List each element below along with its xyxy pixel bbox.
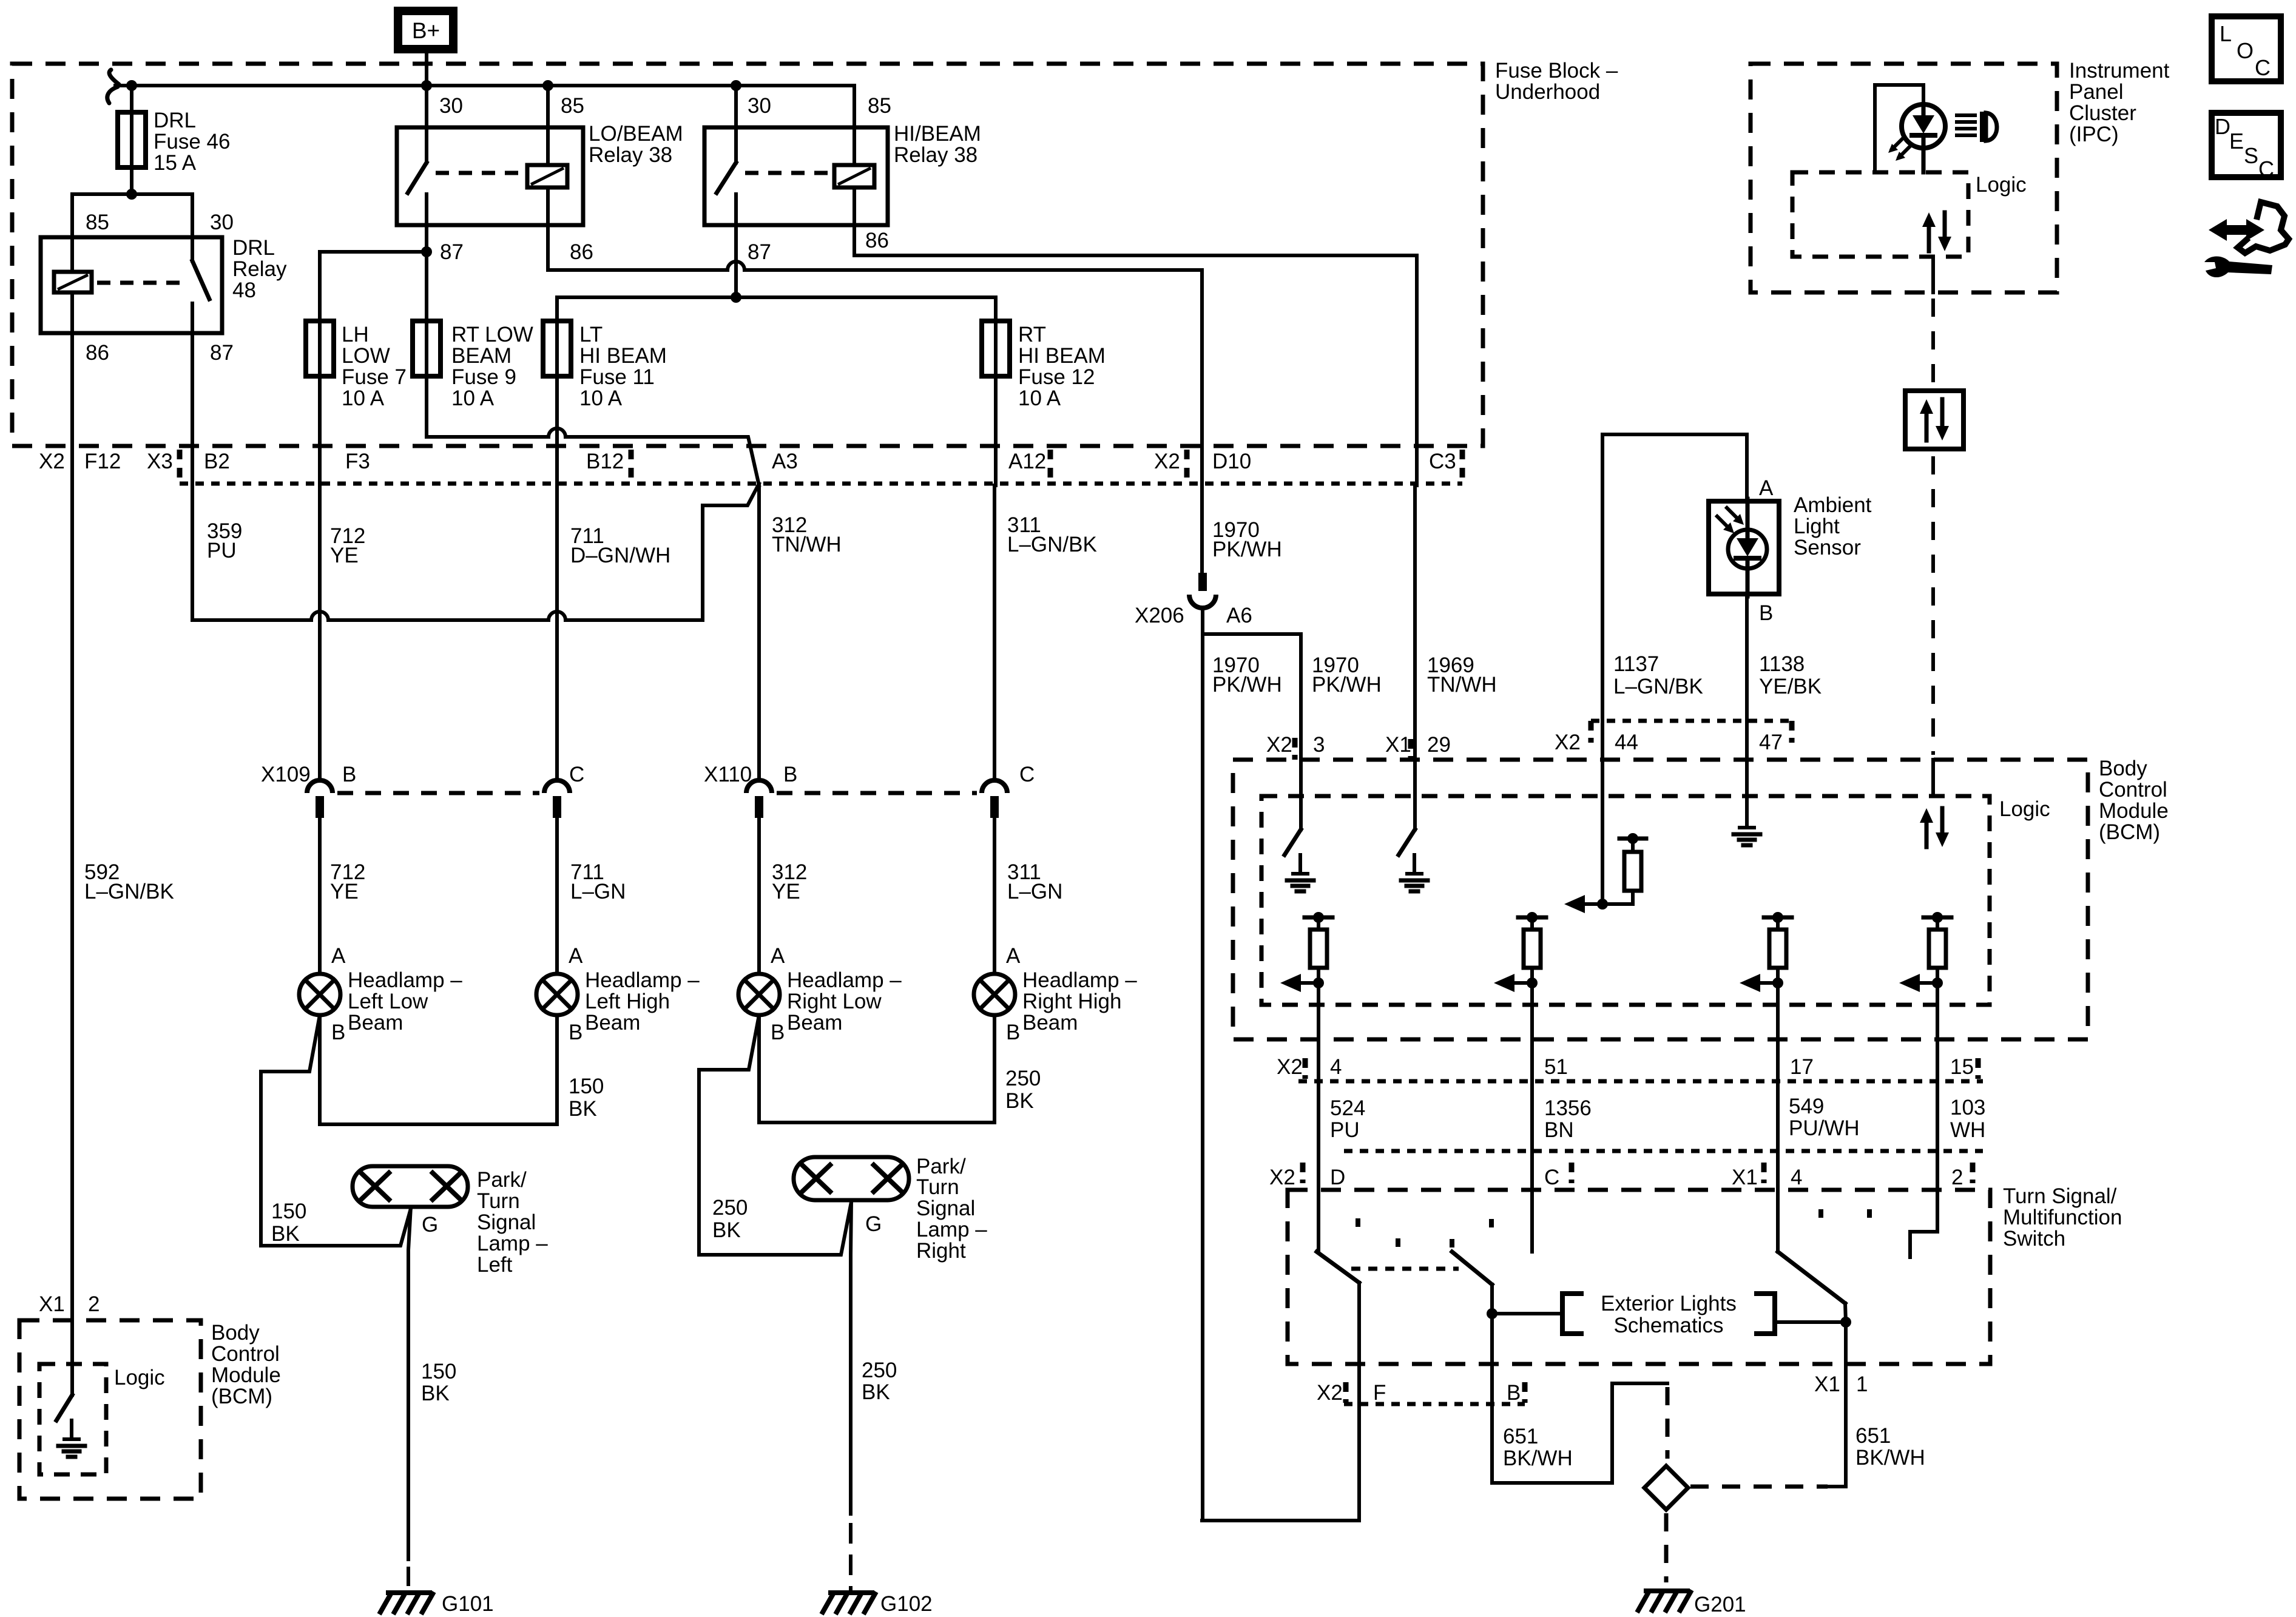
wire 1969 TN/WH <box>1413 485 1417 760</box>
svg-text:C: C <box>2258 157 2274 181</box>
node fuse46-relay <box>126 189 137 200</box>
svg-text:L–GN/BK: L–GN/BK <box>84 880 174 903</box>
svg-text:BK: BK <box>421 1382 450 1405</box>
wire 651 left run <box>1492 1383 1667 1483</box>
serial link upper <box>1931 257 1935 292</box>
svg-text:15 A: 15 A <box>154 151 197 175</box>
wire 592 L-GN/BK <box>70 485 74 1303</box>
svg-text:1356: 1356 <box>1544 1096 1592 1120</box>
wire 592 into BCM <box>70 1303 74 1395</box>
tick B12 <box>629 450 634 480</box>
wire fuse11 stub <box>555 297 559 485</box>
connector X109 arc C <box>544 780 570 793</box>
svg-text:BK: BK <box>862 1380 890 1404</box>
svg-text:4: 4 <box>1330 1055 1342 1079</box>
wire left lamps ground join <box>320 1015 557 1124</box>
svg-text:Right High: Right High <box>1022 990 1121 1013</box>
svg-text:Lamp –: Lamp – <box>916 1218 987 1241</box>
svg-text:Logic: Logic <box>1976 173 2027 197</box>
wrench icon <box>2204 257 2272 278</box>
svg-text:RT LOW: RT LOW <box>451 323 533 346</box>
lamp headlamp left high beam <box>536 974 578 1015</box>
svg-text:C: C <box>1544 1166 1559 1189</box>
serial into logic <box>1931 760 1935 796</box>
svg-text:10 A: 10 A <box>1018 387 1061 410</box>
wire F to 1970 join <box>1202 1519 1359 1522</box>
switch BCM lower-left <box>56 1395 72 1420</box>
svg-text:10 A: 10 A <box>451 387 495 410</box>
TS switch1 out F <box>1357 1283 1361 1521</box>
serial box arrows <box>1925 409 1929 441</box>
ambient light sensor box <box>1709 501 1779 594</box>
node bus-HI30 <box>731 80 741 91</box>
svg-text:Right Low: Right Low <box>787 990 882 1013</box>
svg-text:X2: X2 <box>39 450 65 473</box>
svg-text:651: 651 <box>1503 1425 1538 1448</box>
svg-text:D: D <box>1330 1166 1345 1189</box>
svg-text:103: 103 <box>1950 1096 1985 1119</box>
svg-text:X2: X2 <box>1266 733 1292 757</box>
svg-text:Panel: Panel <box>2069 80 2124 104</box>
svg-text:G102: G102 <box>880 1592 933 1616</box>
BCM serial arrows <box>1925 818 1929 847</box>
resistor pin51 pullup <box>1518 916 1546 920</box>
svg-text:C: C <box>1019 763 1035 786</box>
svg-text:B12: B12 <box>586 450 624 473</box>
svg-text:Headlamp –: Headlamp – <box>348 968 462 992</box>
connector X109 arc B <box>307 780 333 793</box>
svg-text:X2: X2 <box>1277 1055 1303 1079</box>
fuse F12 RT HI BEAM 10A <box>982 321 1010 376</box>
svg-text:PU: PU <box>1330 1118 1360 1142</box>
svg-text:Signal: Signal <box>916 1197 975 1220</box>
svg-text:3: 3 <box>1313 733 1325 757</box>
svg-text:B: B <box>1006 1021 1020 1044</box>
svg-text:G: G <box>865 1212 882 1236</box>
svg-text:TN/WH: TN/WH <box>772 533 842 556</box>
DRL relay coil <box>54 272 92 292</box>
IPC indicator lamp <box>1902 104 1945 148</box>
TS switch2 blade <box>1452 1252 1492 1284</box>
svg-text:17: 17 <box>1790 1055 1814 1079</box>
svg-text:LO/BEAM: LO/BEAM <box>589 122 683 146</box>
TS switch3 out 1 <box>1845 1303 1846 1322</box>
wire 1137 in BCM <box>1601 760 1604 904</box>
svg-text:Logic: Logic <box>1999 797 2050 821</box>
svg-text:524: 524 <box>1330 1096 1365 1120</box>
svg-text:WH: WH <box>1950 1118 1985 1142</box>
wire from bracket right <box>1775 1320 1846 1324</box>
HI relay coil stubs <box>853 86 856 165</box>
svg-text:D10: D10 <box>1212 450 1251 473</box>
svg-text:PK/WH: PK/WH <box>1312 673 1382 697</box>
svg-text:87: 87 <box>440 240 464 264</box>
svg-text:10 A: 10 A <box>579 387 623 410</box>
svg-text:Beam: Beam <box>348 1011 403 1035</box>
svg-text:A6: A6 <box>1226 604 1252 627</box>
svg-text:Right: Right <box>916 1239 966 1263</box>
svg-text:2: 2 <box>88 1292 100 1316</box>
bracket exterior right <box>1757 1294 1775 1334</box>
lamp park/turn right <box>794 1157 909 1200</box>
resistor 1137 pullup <box>1619 837 1646 841</box>
svg-text:PK/WH: PK/WH <box>1212 673 1282 697</box>
wire hibeam fuse bar <box>557 295 996 299</box>
LO relay dashes <box>436 171 523 175</box>
svg-text:Fuse 7: Fuse 7 <box>342 365 407 389</box>
svg-text:B+: B+ <box>412 18 440 43</box>
svg-text:BN: BN <box>1544 1118 1574 1142</box>
svg-text:Exterior Lights: Exterior Lights <box>1601 1292 1737 1315</box>
svg-text:85: 85 <box>86 211 109 234</box>
svg-text:15: 15 <box>1950 1055 1974 1079</box>
TS switch2 out B <box>1490 1284 1494 1483</box>
svg-text:DRL: DRL <box>232 236 275 260</box>
dashed diamond up <box>1666 1387 1670 1459</box>
svg-text:PK/WH: PK/WH <box>1212 538 1282 561</box>
turn signal switch dashed box <box>1288 1190 1990 1364</box>
wire HI87 down <box>734 225 738 297</box>
svg-text:A3: A3 <box>772 450 798 473</box>
svg-text:DRL: DRL <box>154 109 196 132</box>
svg-text:Fuse Block –: Fuse Block – <box>1495 59 1618 83</box>
svg-text:YE/BK: YE/BK <box>1759 675 1822 698</box>
svg-text:L–GN: L–GN <box>570 880 626 903</box>
svg-text:F: F <box>1373 1381 1386 1405</box>
svg-text:C: C <box>2255 55 2271 80</box>
svg-text:HI BEAM: HI BEAM <box>1018 344 1106 368</box>
IPC logic arrows <box>1927 222 1931 251</box>
svg-text:150: 150 <box>421 1360 456 1383</box>
wire dash to G102 <box>849 1523 853 1590</box>
svg-text:(BCM): (BCM) <box>2099 820 2160 844</box>
svg-text:150: 150 <box>271 1200 306 1223</box>
tick A12-X2 <box>1048 450 1053 480</box>
svg-text:L: L <box>2220 21 2232 46</box>
svg-text:Cluster: Cluster <box>2069 101 2136 125</box>
ticks TS input <box>1300 1163 1306 1183</box>
DRL relay dashes <box>97 281 182 285</box>
lamp headlamp left low beam <box>299 974 340 1015</box>
wire 311 L-GN lower <box>993 818 996 974</box>
tick C3 <box>1460 450 1465 480</box>
svg-text:X2: X2 <box>1555 731 1581 754</box>
headlamp icon <box>1957 113 1975 117</box>
TS switch3 wire 4 <box>1776 1151 1780 1252</box>
LOC box <box>2212 16 2281 81</box>
lamp headlamp right high beam <box>974 974 1015 1015</box>
BCM bottom connector dotted <box>1298 1079 1983 1084</box>
svg-text:Fuse 46: Fuse 46 <box>154 130 230 154</box>
svg-text:L–GN/BK: L–GN/BK <box>1007 533 1097 556</box>
svg-text:87: 87 <box>210 341 234 365</box>
node TS exterior left <box>1487 1308 1497 1319</box>
svg-text:BK/WH: BK/WH <box>1855 1446 1925 1470</box>
svg-text:C: C <box>569 763 584 786</box>
svg-text:HI BEAM: HI BEAM <box>579 344 667 368</box>
connector X206 cup <box>1189 595 1216 608</box>
svg-text:Turn: Turn <box>916 1175 959 1199</box>
svg-text:BK/WH: BK/WH <box>1503 1447 1573 1470</box>
svg-text:Left: Left <box>477 1253 513 1277</box>
svg-text:X3: X3 <box>147 450 173 473</box>
svg-text:Control: Control <box>211 1342 280 1366</box>
svg-text:F12: F12 <box>84 450 121 473</box>
svg-text:X2: X2 <box>1269 1166 1295 1189</box>
tick X3-B2 <box>177 450 183 480</box>
BCM lower-left dashed box <box>19 1320 201 1499</box>
svg-text:Fuse 9: Fuse 9 <box>451 365 516 389</box>
node bus-LO85 <box>542 80 553 91</box>
svg-text:1138: 1138 <box>1759 652 1805 676</box>
svg-text:X206: X206 <box>1135 604 1184 627</box>
sensor connector dotted <box>1591 719 1792 723</box>
svg-text:Beam: Beam <box>787 1011 842 1035</box>
svg-text:F3: F3 <box>345 450 370 473</box>
connector strip dotted <box>180 482 1462 486</box>
dashed to diamond right <box>1690 1485 1828 1489</box>
ground G101 <box>388 1590 430 1595</box>
fuse F11 LT HI BEAM 10A <box>543 321 571 376</box>
svg-text:Left Low: Left Low <box>348 990 428 1013</box>
wire DRL relay top bar <box>72 194 192 237</box>
wire 711 L-GN lower <box>555 818 559 974</box>
svg-text:B: B <box>331 1021 345 1044</box>
wire DRL87 to B2 <box>191 333 194 485</box>
wire pin51 out <box>1530 983 1534 1151</box>
wire LO87 to fuse7 <box>320 250 427 254</box>
wire fuse12 stub <box>994 297 998 485</box>
svg-text:G101: G101 <box>442 1592 494 1616</box>
svg-text:Park/: Park/ <box>477 1168 527 1192</box>
wire HI86 run <box>854 225 1417 485</box>
svg-text:Headlamp –: Headlamp – <box>585 968 700 992</box>
svg-text:B: B <box>342 763 356 786</box>
wire pin4 out <box>1317 983 1320 1151</box>
svg-text:X1: X1 <box>1732 1166 1758 1189</box>
wire to bracket left <box>1492 1312 1562 1315</box>
svg-text:30: 30 <box>210 211 234 234</box>
HI relay coil <box>834 165 874 187</box>
svg-text:250: 250 <box>1005 1067 1041 1090</box>
svg-text:BK: BK <box>1005 1089 1034 1113</box>
wire dash to G101 <box>407 1567 410 1586</box>
tick X2-D10 <box>1184 450 1190 480</box>
svg-text:250: 250 <box>862 1359 897 1382</box>
wire 250BK to right park <box>699 1015 851 1255</box>
node LO87 <box>421 246 432 257</box>
svg-text:51: 51 <box>1544 1055 1568 1079</box>
svg-text:B2: B2 <box>204 450 230 473</box>
wire 359 jog to A3 <box>192 618 311 622</box>
relay K38H HI/BEAM box <box>704 127 888 225</box>
svg-text:1137: 1137 <box>1613 652 1659 676</box>
relay K48 DRL box <box>41 237 222 333</box>
svg-text:Beam: Beam <box>1022 1011 1078 1035</box>
X110 dashed link <box>777 791 977 795</box>
svg-text:Lamp –: Lamp – <box>477 1232 548 1255</box>
splice diamond <box>1644 1466 1688 1510</box>
connector X110 arc B <box>746 780 772 793</box>
svg-text:651: 651 <box>1855 1424 1891 1448</box>
wire pin17 out <box>1776 983 1780 1151</box>
svg-text:O: O <box>2237 38 2254 63</box>
wire 150BK to left park <box>261 1015 411 1246</box>
arrow 1137 sense <box>1582 902 1602 906</box>
svg-text:X1: X1 <box>1385 733 1411 757</box>
HI relay dashes <box>745 171 830 175</box>
svg-text:85: 85 <box>561 94 584 118</box>
BCM dashed box <box>1233 760 2088 1039</box>
TS linkage dots <box>1356 1218 1360 1233</box>
svg-text:G: G <box>422 1213 438 1237</box>
logic box lower-left <box>39 1364 106 1474</box>
svg-text:A: A <box>569 944 583 968</box>
svg-text:C3: C3 <box>1429 450 1456 473</box>
svg-text:PU/WH: PU/WH <box>1789 1116 1860 1140</box>
svg-text:X2: X2 <box>1317 1381 1343 1405</box>
svg-text:Fuse 11: Fuse 11 <box>579 365 655 389</box>
svg-text:TN/WH: TN/WH <box>1427 673 1497 697</box>
svg-text:YE: YE <box>330 544 359 567</box>
svg-text:YE: YE <box>330 880 359 903</box>
svg-text:Underhood: Underhood <box>1495 80 1600 104</box>
svg-text:A: A <box>1006 944 1021 968</box>
svg-text:B: B <box>1759 601 1773 625</box>
svg-text:85: 85 <box>868 94 891 118</box>
svg-text:Ambient: Ambient <box>1794 493 1872 517</box>
svg-text:Fuse 12: Fuse 12 <box>1018 365 1095 389</box>
svg-text:A: A <box>331 944 346 968</box>
svg-text:(BCM): (BCM) <box>211 1385 272 1408</box>
svg-text:2: 2 <box>1951 1166 1963 1189</box>
TS bottom connector dotted <box>1344 1402 1525 1406</box>
svg-text:Relay 38: Relay 38 <box>589 143 672 167</box>
svg-text:BEAM: BEAM <box>451 344 512 368</box>
HI relay switch <box>734 86 738 163</box>
svg-text:LH: LH <box>342 323 369 346</box>
wire 1138 YE/BK <box>1745 596 1749 760</box>
svg-text:Module: Module <box>2099 799 2169 823</box>
wire 359 PU <box>191 485 194 620</box>
IPC logic box <box>1792 172 1968 257</box>
svg-text:Turn Signal/: Turn Signal/ <box>2003 1184 2117 1208</box>
IPC dashed box <box>1751 64 2057 292</box>
svg-text:Control: Control <box>2099 778 2167 802</box>
svg-text:Multifunction: Multifunction <box>2003 1206 2122 1229</box>
svg-text:44: 44 <box>1615 731 1638 754</box>
resistor pin15 pullup <box>1923 916 1951 920</box>
svg-text:1: 1 <box>1856 1372 1868 1396</box>
ground G102 <box>831 1590 872 1595</box>
fuse F46 DRL 15A <box>118 112 146 167</box>
svg-text:549: 549 <box>1789 1095 1824 1118</box>
svg-text:RT: RT <box>1018 323 1046 346</box>
svg-text:B: B <box>1507 1381 1521 1405</box>
svg-text:X1: X1 <box>1814 1372 1840 1396</box>
svg-text:E: E <box>2229 129 2244 154</box>
svg-text:10 A: 10 A <box>342 387 385 410</box>
wire LO86 run <box>548 225 728 270</box>
BCM logic dashed box <box>1261 796 1990 1005</box>
serial data box <box>1905 391 1963 449</box>
ground pin29 <box>1413 855 1416 874</box>
DRL relay switch <box>191 237 194 261</box>
wire X206 down split <box>1201 608 1204 1521</box>
tick X1-29 <box>1408 739 1414 758</box>
ground 1138 <box>1745 760 1749 809</box>
fuse block - underhood dashed box <box>12 64 1483 446</box>
lamp park/turn left <box>353 1166 468 1207</box>
wire 1970 to X206 <box>1200 485 1204 574</box>
ground pin3 <box>1298 855 1302 874</box>
svg-text:Beam: Beam <box>585 1011 640 1035</box>
svg-text:G201: G201 <box>1694 1593 1746 1616</box>
svg-text:D: D <box>2215 114 2230 139</box>
svg-text:29: 29 <box>1427 733 1451 757</box>
svg-text:Body: Body <box>211 1321 260 1345</box>
svg-text:Sensor: Sensor <box>1794 536 1861 559</box>
svg-text:87: 87 <box>748 240 771 264</box>
switch pin3 <box>1299 760 1303 829</box>
sensor photodiode <box>1728 530 1767 569</box>
svg-text:B: B <box>783 763 797 786</box>
wire 651 right run <box>1829 1485 1846 1488</box>
X109 dashed link <box>337 791 539 795</box>
TS input connector dotted <box>1344 1149 1983 1153</box>
svg-text:30: 30 <box>439 94 463 118</box>
fuse F9 RT LOW 10A <box>413 321 441 376</box>
TS switch4 wire 2 <box>1910 1151 1937 1257</box>
wire 311 L-GN/BK upper <box>993 485 996 780</box>
wire 1137 loop <box>1602 434 1747 760</box>
wire 312 YE lower <box>757 818 761 974</box>
svg-text:48: 48 <box>232 279 256 302</box>
node bus-DRLfuse <box>126 80 137 91</box>
ground G201 <box>1646 1588 1687 1593</box>
svg-text:PU: PU <box>207 539 237 562</box>
svg-text:Schematics: Schematics <box>1614 1314 1724 1337</box>
svg-text:250: 250 <box>712 1196 748 1220</box>
resistor pin17 pullup <box>1764 916 1792 920</box>
svg-text:A12: A12 <box>1008 450 1046 473</box>
node bus-B+ <box>421 80 432 91</box>
connector X110 arc C <box>982 780 1007 793</box>
sensor light arrows <box>1717 516 1730 530</box>
svg-text:A: A <box>771 944 785 968</box>
svg-text:Signal: Signal <box>477 1210 536 1234</box>
TS switch2 wire C <box>1530 1151 1534 1252</box>
B+ terminal box <box>398 11 453 49</box>
serial link lower <box>1931 456 1935 755</box>
connector X206 pin <box>1198 573 1207 591</box>
wire pin15 out <box>1936 983 1939 1151</box>
bracket exterior left <box>1562 1294 1581 1334</box>
dashed diamond down <box>1664 1513 1669 1582</box>
svg-text:Left High: Left High <box>585 990 670 1013</box>
TS linkage dots right <box>1818 1209 1823 1224</box>
TS switch1 blade <box>1317 1252 1359 1283</box>
svg-text:LOW: LOW <box>342 344 390 368</box>
svg-text:Turn: Turn <box>477 1189 520 1213</box>
svg-text:4: 4 <box>1791 1166 1802 1189</box>
DESC box <box>2212 113 2281 177</box>
svg-text:HI/BEAM: HI/BEAM <box>894 122 981 146</box>
bus hook left end <box>107 70 119 103</box>
wire fuse9 to A3 <box>427 435 549 439</box>
svg-text:Switch: Switch <box>2003 1227 2065 1251</box>
svg-text:Instrument: Instrument <box>2069 59 2170 83</box>
